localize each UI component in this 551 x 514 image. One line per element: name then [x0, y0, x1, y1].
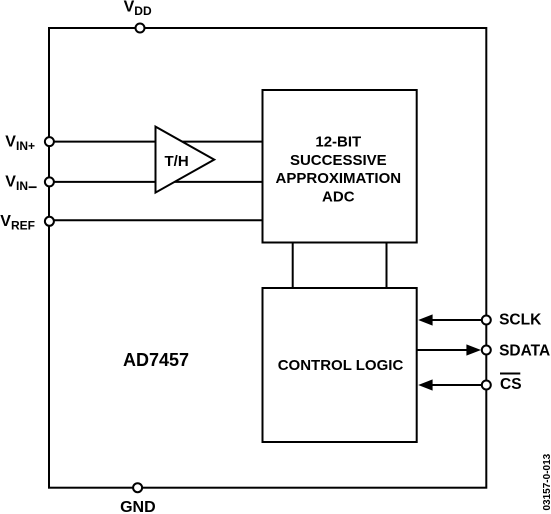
svg-text:ADC: ADC	[322, 188, 355, 205]
svg-text:V: V	[0, 213, 11, 230]
wire ADC to control logic right	[386, 243, 388, 289]
wire SCLK with arrow into control logic	[418, 314, 481, 325]
wire CS with arrow into control logic	[418, 379, 481, 390]
pin GND	[120, 483, 156, 514]
pin VIN-	[5, 174, 54, 194]
ADC block 12-bit successive approximation	[263, 90, 417, 243]
svg-text:T/H: T/H	[165, 153, 189, 170]
svg-text:SDATA: SDATA	[499, 343, 550, 360]
svg-text:V: V	[5, 174, 16, 191]
svg-text:V: V	[124, 0, 135, 16]
svg-text:IN: IN	[16, 179, 28, 193]
svg-text:IN+: IN+	[16, 139, 35, 153]
op-amp T/H track-and-hold	[156, 127, 215, 193]
wire VIN+ to ADC	[49, 141, 263, 143]
pin SCLK	[482, 311, 542, 328]
pin CS active low	[482, 374, 522, 393]
svg-text:V: V	[5, 133, 16, 150]
pin VREF	[0, 213, 54, 233]
pin VDD	[124, 0, 152, 33]
svg-text:CS: CS	[500, 376, 522, 393]
svg-text:CONTROL LOGIC: CONTROL LOGIC	[278, 357, 404, 374]
svg-text:SCLK: SCLK	[499, 311, 542, 328]
control logic block	[263, 288, 417, 442]
svg-text:12-BIT: 12-BIT	[315, 134, 361, 151]
svg-text:03157-0-013: 03157-0-013	[542, 453, 551, 510]
svg-text:REF: REF	[11, 218, 35, 232]
svg-text:SUCCESSIVE: SUCCESSIVE	[290, 152, 387, 169]
pin VIN+	[5, 133, 54, 153]
chip outline AD7457	[49, 28, 486, 488]
svg-text:DD: DD	[134, 4, 152, 18]
wire VREF to ADC	[49, 219, 263, 221]
svg-text:GND: GND	[120, 499, 156, 514]
wire VIN- to ADC	[49, 181, 263, 183]
svg-text:AD7457: AD7457	[123, 350, 189, 370]
pin SDATA	[482, 343, 550, 360]
svg-text:APPROXIMATION: APPROXIMATION	[276, 170, 402, 187]
wire SDATA with arrow out of control logic	[418, 344, 482, 355]
wire ADC to control logic left	[292, 243, 294, 289]
